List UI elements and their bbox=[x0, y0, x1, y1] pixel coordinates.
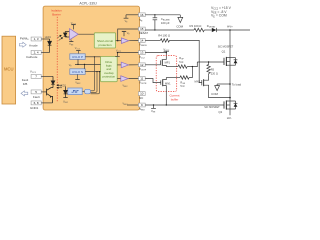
svg-text:R5: R5 bbox=[211, 68, 215, 72]
svg-text:Fault: Fault bbox=[33, 95, 40, 99]
svg-text:VGMOS: VGMOS bbox=[139, 43, 147, 48]
svg-text:DDESAT: DDESAT bbox=[207, 24, 216, 29]
svg-text:VEE: VEE bbox=[151, 109, 156, 114]
svg-text:Q1: Q1 bbox=[222, 49, 226, 53]
svg-text:220 Ω: 220 Ω bbox=[211, 71, 218, 75]
svg-text:Anode: Anode bbox=[29, 43, 38, 47]
svg-text:VCC2: VCC2 bbox=[75, 47, 80, 51]
svg-text:Cathode: Cathode bbox=[26, 55, 38, 59]
svg-text:buffer: buffer bbox=[171, 97, 179, 101]
svg-text:To load: To load bbox=[232, 83, 242, 87]
svg-text:VEE2: VEE2 bbox=[75, 82, 80, 86]
svg-text:VCC2: VCC2 bbox=[139, 55, 145, 60]
svg-text:VCC1: VCC1 bbox=[30, 70, 37, 75]
svg-text:COM: COM bbox=[176, 24, 183, 28]
svg-text:MN1: MN1 bbox=[165, 82, 171, 86]
svg-text:Barrier: Barrier bbox=[52, 12, 60, 16]
svg-text:2, 4: 2, 4 bbox=[34, 51, 39, 55]
svg-text:MN2: MN2 bbox=[195, 79, 201, 83]
svg-text:ACPL-339J: ACPL-339J bbox=[79, 1, 97, 5]
svg-text:MP1: MP1 bbox=[165, 61, 171, 65]
svg-text:COM: COM bbox=[211, 92, 218, 96]
svg-text:VCC2: VCC2 bbox=[71, 22, 76, 26]
svg-text:16: 16 bbox=[140, 13, 144, 17]
svg-text:protection: protection bbox=[102, 74, 115, 78]
svg-text:UVLO P: UVLO P bbox=[72, 55, 83, 59]
svg-text:MCU: MCU bbox=[4, 66, 14, 71]
svg-text:protection: protection bbox=[98, 43, 112, 47]
svg-text:100 pF: 100 pF bbox=[161, 21, 170, 25]
svg-text:DESAT: DESAT bbox=[139, 31, 148, 35]
svg-text:1, 3: 1, 3 bbox=[34, 37, 39, 41]
svg-text:VOUTN: VOUTN bbox=[139, 81, 147, 86]
svg-text:VEE2: VEE2 bbox=[139, 107, 144, 112]
svg-text:VCC2: VCC2 bbox=[116, 49, 121, 53]
svg-text:GND1: GND1 bbox=[30, 106, 39, 110]
svg-text:VEE2: VEE2 bbox=[63, 101, 68, 105]
svg-text:6, 8: 6, 8 bbox=[34, 101, 39, 105]
svg-text:PWMS: PWMS bbox=[20, 36, 29, 41]
svg-text:VE: VE bbox=[139, 18, 143, 23]
svg-text:VOUTP: VOUTP bbox=[139, 67, 147, 72]
svg-text:LED1: LED1 bbox=[45, 36, 52, 39]
svg-text:VEE2: VEE2 bbox=[122, 85, 127, 89]
svg-text:HV+: HV+ bbox=[227, 24, 233, 28]
svg-text:5 Ω: 5 Ω bbox=[180, 84, 184, 88]
svg-text:F/B: F/B bbox=[23, 82, 28, 86]
svg-text:R3 100 Ω: R3 100 Ω bbox=[190, 24, 202, 28]
svg-text:VCC2: VCC2 bbox=[163, 47, 170, 52]
svg-text:VEE2: VEE2 bbox=[122, 102, 127, 106]
svg-text:SiC MOSFET: SiC MOSFET bbox=[204, 105, 220, 109]
svg-text:VE = COM: VE = COM bbox=[211, 14, 227, 19]
svg-text:5 Ω: 5 Ω bbox=[179, 60, 183, 64]
svg-text:Q2: Q2 bbox=[218, 110, 222, 114]
svg-text:UVLO N: UVLO N bbox=[72, 70, 83, 74]
svg-text:R4 100 Ω: R4 100 Ω bbox=[158, 33, 170, 37]
svg-text:SiC MOSFET: SiC MOSFET bbox=[218, 44, 234, 48]
svg-text:HV-: HV- bbox=[227, 116, 232, 120]
svg-text:NC: NC bbox=[139, 96, 143, 100]
